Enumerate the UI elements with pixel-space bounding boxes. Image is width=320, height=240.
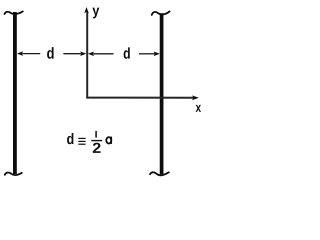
- fraction denominator 2: [93, 143, 101, 153]
- left dimension line (axis side): [63, 53, 81, 55]
- right dimension arrow to y-axis: [88, 52, 94, 57]
- right plate: [160, 13, 164, 174]
- y-axis: [86, 12, 88, 98]
- y label: [92, 8, 99, 19]
- right dimension line (plate side): [139, 53, 155, 55]
- left dimension label d: [47, 47, 54, 59]
- y-axis arrowhead: [84, 7, 89, 13]
- right dimension arrow to plate: [154, 52, 160, 57]
- left plate bottom squiggle: [5, 172, 22, 175]
- left plate: [13, 12, 17, 174]
- right plate bottom squiggle: [150, 172, 169, 175]
- left plate top squiggle: [5, 11, 23, 14]
- equation triple bar (identical to): [78, 138, 85, 144]
- right plate top squiggle: [152, 12, 170, 15]
- left dimension arrow to y-axis: [80, 51, 86, 56]
- equation letter a (single-storey): [106, 137, 111, 144]
- x-axis: [86, 97, 193, 99]
- equation label d: [67, 133, 73, 144]
- right dimension label d: [124, 47, 130, 58]
- right dimension line (axis side): [93, 53, 113, 55]
- x-axis arrowhead: [192, 95, 199, 100]
- fraction numerator 1: [95, 131, 97, 138]
- fraction bar: [91, 140, 102, 142]
- left dimension line (plate side): [22, 53, 40, 55]
- x label: [196, 105, 201, 112]
- left dimension arrow to plate: [17, 51, 23, 56]
